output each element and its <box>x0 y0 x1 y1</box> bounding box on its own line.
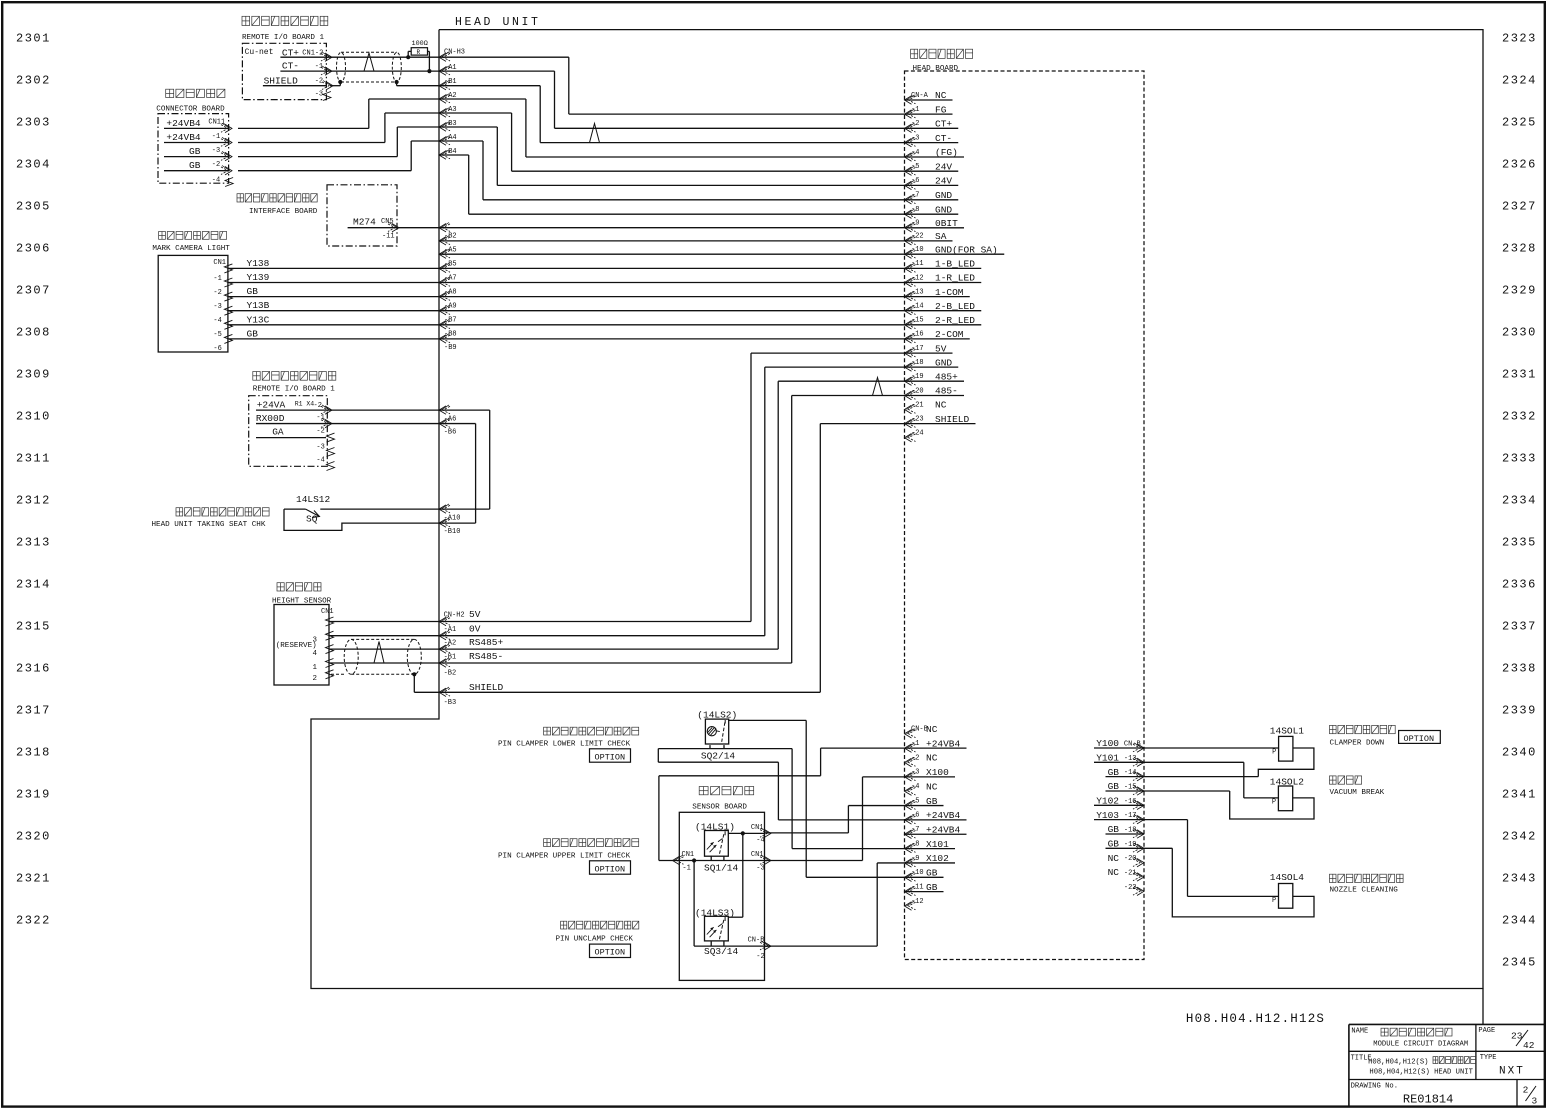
interface board box <box>327 185 397 246</box>
svg-text:MODULE CIRCUIT DIAGRAM: MODULE CIRCUIT DIAGRAM <box>1373 1041 1468 1049</box>
svg-text:-3: -3 <box>213 303 221 311</box>
svg-text:-22: -22 <box>911 233 924 241</box>
svg-text:-11: -11 <box>911 260 924 268</box>
svg-text:1: 1 <box>313 664 318 672</box>
14LS3 bottom terminal wires <box>710 941 712 946</box>
shielded twisted pair symbol (Cu-net CT pair) <box>337 52 346 82</box>
svg-text:2302: 2302 <box>16 74 51 88</box>
svg-text:2318: 2318 <box>16 746 51 760</box>
svg-text:-7: -7 <box>911 192 919 200</box>
remote I/O board 1 box <box>242 43 326 99</box>
svg-text:+24VB4: +24VB4 <box>166 132 201 143</box>
connector CN-B pin -11 GB <box>905 886 916 895</box>
vacuum break labels <box>1330 776 1362 784</box>
height sensor pin 1 <box>326 659 334 668</box>
SHIELD wire to CN-H2-B3 <box>413 674 415 692</box>
svg-text:2316: 2316 <box>16 662 51 676</box>
svg-text:2336: 2336 <box>1502 578 1537 592</box>
connector CN-B pin -17 Y103 (right edge) <box>1133 814 1144 823</box>
svg-text:-4: -4 <box>911 783 919 791</box>
svg-text:-5: -5 <box>911 797 919 805</box>
shielded twisted pair symbol RS485 pair <box>344 639 358 674</box>
svg-text:2305: 2305 <box>16 200 51 214</box>
wire X102 CN-B-9 to sensor board CN-B-2 <box>877 862 904 864</box>
svg-text:NC: NC <box>926 781 938 792</box>
OPTION box (unclamp) <box>590 944 631 957</box>
OPTION box (clamper down) <box>1399 731 1441 744</box>
twist symbol CT pair <box>364 53 374 71</box>
svg-text:+24VB4: +24VB4 <box>166 118 201 129</box>
svg-text:NC: NC <box>1108 867 1120 878</box>
head unit right edge extension to title block <box>1482 989 1484 1025</box>
wire shield right drain to -B1 pin <box>395 80 399 84</box>
svg-text:-2: -2 <box>212 161 220 169</box>
connector CN-B pin -22 (right edge) <box>1133 886 1144 895</box>
wire GB to CN-H3-B3 <box>238 156 397 158</box>
wire +24VB4 CN-B-6 from 14LS2 common <box>778 819 904 821</box>
svg-text:-8: -8 <box>911 840 919 848</box>
svg-text:PIN CLAMPER UPPER LIMIT CHECK: PIN CLAMPER UPPER LIMIT CHECK <box>498 853 631 861</box>
head unit taking seat chk labels <box>176 508 269 516</box>
svg-text:HEAD UNIT: HEAD UNIT <box>455 16 541 29</box>
svg-text:-1: -1 <box>911 106 919 114</box>
wire +24VB4#2 to CN-H3-A3 <box>238 142 385 144</box>
svg-text:NC: NC <box>935 400 947 411</box>
wire 14SOL2 return to GB-15 <box>1230 791 1314 819</box>
svg-text:-2: -2 <box>213 289 221 297</box>
svg-text:-24: -24 <box>911 430 924 438</box>
svg-text:2325: 2325 <box>1502 116 1537 130</box>
wire CT- to head unit edge <box>326 70 439 72</box>
svg-text:GA: GA <box>272 426 284 437</box>
svg-text:2340: 2340 <box>1502 746 1537 760</box>
limit switch 14LS1 body <box>705 831 729 857</box>
svg-text:2327: 2327 <box>1502 200 1537 214</box>
svg-text:2330: 2330 <box>1502 326 1537 340</box>
connector CN-B pin -20 NC (right edge) <box>1133 857 1144 866</box>
svg-text:2321: 2321 <box>16 872 51 886</box>
connector CN-A pin -17 5V <box>905 348 916 357</box>
svg-text:2337: 2337 <box>1502 620 1537 634</box>
svg-text:3: 3 <box>1532 1096 1538 1107</box>
svg-text:-21: -21 <box>1124 869 1137 877</box>
svg-text:Y13B: Y13B <box>247 300 270 311</box>
svg-text:-14: -14 <box>1124 769 1137 777</box>
svg-text:2303: 2303 <box>16 116 51 130</box>
svg-text:CONNECTOR BOARD: CONNECTOR BOARD <box>156 106 225 114</box>
resistor left lead to CT+ junction <box>407 51 409 57</box>
connector board title <box>166 89 225 97</box>
svg-text:-20: -20 <box>1124 855 1137 863</box>
svg-text:CN1-2: CN1-2 <box>302 50 323 58</box>
svg-text:-5: -5 <box>213 331 221 339</box>
svg-text:-4: -4 <box>213 317 221 325</box>
solenoid 14SOL1 <box>1279 736 1293 761</box>
svg-text:CN5: CN5 <box>381 218 394 226</box>
svg-text:-16: -16 <box>1124 798 1137 806</box>
connector CN-B pin -3 X100 <box>905 772 916 781</box>
svg-text:-9: -9 <box>911 855 919 863</box>
svg-text:-1: -1 <box>315 63 323 71</box>
svg-text:RS485-: RS485- <box>469 651 503 662</box>
remote I/O board 1 title (second) <box>253 372 336 381</box>
svg-text:OPTION: OPTION <box>1404 734 1435 744</box>
svg-text:RX00D: RX00D <box>256 413 285 424</box>
connector CN-A pin -6 24V <box>905 180 916 189</box>
svg-text:100Ω: 100Ω <box>412 40 428 48</box>
svg-text:-2: -2 <box>911 754 919 762</box>
svg-text:-12: -12 <box>911 274 924 282</box>
svg-text:-22: -22 <box>1124 884 1137 892</box>
svg-text:-19: -19 <box>1124 841 1137 849</box>
svg-text:-B2: -B2 <box>444 670 457 678</box>
svg-text:2339: 2339 <box>1502 704 1537 718</box>
svg-text:2334: 2334 <box>1502 494 1537 508</box>
sensor board box <box>679 812 764 980</box>
right margin row numbers 2323-2345 <box>1502 32 1537 970</box>
svg-text:HEAD BOARD: HEAD BOARD <box>913 65 959 73</box>
svg-text:PIN CLAMPER LOWER LIMIT CHECK: PIN CLAMPER LOWER LIMIT CHECK <box>498 741 631 749</box>
connector CN-A pin -16 2-COM <box>905 334 916 343</box>
solenoid 14SOL4 <box>1279 884 1293 909</box>
svg-text:2324: 2324 <box>1502 74 1537 88</box>
svg-text:2331: 2331 <box>1502 368 1537 382</box>
svg-text:-21: -21 <box>911 401 924 409</box>
svg-text:P: P <box>1272 799 1276 807</box>
loop wire RX00D to -B10 (14LS12) <box>439 423 476 425</box>
connector CN-A pin -18 GND <box>905 362 916 371</box>
svg-text:2323: 2323 <box>1502 32 1537 46</box>
svg-text:14SOL1: 14SOL1 <box>1270 726 1305 737</box>
svg-text:-10: -10 <box>911 246 924 254</box>
svg-text:2338: 2338 <box>1502 662 1537 676</box>
svg-text:CN1: CN1 <box>321 608 334 616</box>
resistor right lead to CT- junction <box>428 50 430 52</box>
svg-text:-14: -14 <box>911 303 924 311</box>
connector CN-A pin -14 2-B_LED <box>905 306 916 315</box>
svg-text:-3: -3 <box>316 443 324 451</box>
wire 14SOL4 return to GB-19 <box>1172 848 1314 917</box>
connector CN-A pin CN-A NC <box>905 95 916 104</box>
svg-text:SHIELD: SHIELD <box>469 682 504 693</box>
wire SA to CN-A-22 <box>439 240 905 242</box>
svg-text:-1: -1 <box>213 275 221 283</box>
wire GB CN-B-10 from 14LS2 top <box>806 876 904 878</box>
svg-text:OPTION: OPTION <box>595 948 626 958</box>
connector CN-A pin -22 SA <box>905 236 916 245</box>
wire +24VB4 CN-B-1 to sensor board CN1-1 <box>821 747 905 749</box>
svg-text:R1 X4: R1 X4 <box>295 401 315 408</box>
svg-text:-2: -2 <box>911 120 919 128</box>
connector CN-B pin -4 NC <box>905 786 916 795</box>
connector CN-B pin -12 <box>905 901 916 910</box>
svg-text:REMOTE I/O BOARD 1: REMOTE I/O BOARD 1 <box>253 386 335 394</box>
wire Y103 to 14SOL4 <box>1144 819 1188 821</box>
svg-text:H08,H04,H12(S) HEAD UNIT: H08,H04,H12(S) HEAD UNIT <box>1369 1069 1473 1077</box>
svg-text:-17: -17 <box>1124 812 1137 820</box>
connector CN-B pin -5 GB <box>905 800 916 809</box>
svg-text:14SOL4: 14SOL4 <box>1270 872 1305 883</box>
svg-text:P: P <box>1272 897 1276 905</box>
connector CN-A pin -13 1-COM <box>905 291 916 300</box>
svg-text:2342: 2342 <box>1502 830 1537 844</box>
svg-text:2301: 2301 <box>16 32 51 46</box>
svg-text:-2: -2 <box>756 953 764 961</box>
connector CN-A pin -5 24V <box>905 166 916 175</box>
connector CN-A pin -24 <box>905 433 916 442</box>
connector CN-A pin -11 1-B_LED <box>905 263 916 272</box>
title block table <box>1349 1023 1545 1025</box>
height sensor box <box>274 605 329 686</box>
connector CN-B pin -7 +24VB4 <box>905 829 916 838</box>
svg-text:2341: 2341 <box>1502 788 1537 802</box>
limit switch 14LS3 body <box>705 916 729 941</box>
svg-text:-13: -13 <box>1124 755 1137 763</box>
mark camera light title <box>159 232 227 240</box>
svg-text:2320: 2320 <box>16 830 51 844</box>
wire GND(FOR SA) to CN-A-10 <box>439 253 905 255</box>
svg-text:R: R <box>417 49 421 56</box>
svg-text:-19: -19 <box>911 373 924 381</box>
svg-text:2335: 2335 <box>1502 536 1537 550</box>
svg-text:CLAMPER DOWN: CLAMPER DOWN <box>1330 740 1385 748</box>
wire X101 CN-B-8 from 14LS2 contact <box>792 848 904 850</box>
svg-text:3: 3 <box>313 637 318 645</box>
svg-text:4: 4 <box>313 650 318 658</box>
wire RS485+ up to CN-A-19 <box>777 381 779 649</box>
mark camera pin -2 signal Y139 <box>224 278 232 287</box>
wire X100 CN-B-3 to sensor board CN1-3 <box>863 776 905 778</box>
svg-text:-7: -7 <box>911 826 919 834</box>
svg-text:-2: -2 <box>315 78 323 86</box>
svg-text:SQ3/14: SQ3/14 <box>704 946 739 957</box>
svg-text:14LS12: 14LS12 <box>296 494 331 505</box>
connector CN-B pin -10 GB <box>905 872 916 881</box>
svg-text:-13: -13 <box>911 288 924 296</box>
twist symbol 485 pair at head board <box>873 378 883 396</box>
svg-text:GB: GB <box>189 160 201 171</box>
svg-text:RE01814: RE01814 <box>1403 1093 1453 1107</box>
limit switch 14LS2 body <box>705 719 728 744</box>
svg-text:GB: GB <box>247 328 259 339</box>
pin clamper upper limit check labels <box>544 839 639 847</box>
mark camera pin -1 signal Y138 <box>224 264 232 273</box>
svg-text:NC: NC <box>926 753 938 764</box>
svg-text:NOZZLE CLEANING: NOZZLE CLEANING <box>1330 887 1399 895</box>
wire GB CN-B-5 to sensor board CN1-4 <box>848 805 904 807</box>
svg-text:2329: 2329 <box>1502 284 1537 298</box>
wire +24VB4#1 to CN-H3-A2 <box>238 127 369 129</box>
svg-text:SQ2/14: SQ2/14 <box>701 751 736 762</box>
svg-text:2328: 2328 <box>1502 242 1537 256</box>
svg-text:Cu-net: Cu-net <box>245 48 274 57</box>
svg-text:SHIELD: SHIELD <box>264 76 299 87</box>
14LS12 lower contact wire <box>284 509 439 530</box>
svg-text:CN-H3: CN-H3 <box>444 49 465 57</box>
svg-text:-B10: -B10 <box>444 528 461 536</box>
svg-text:2306: 2306 <box>16 242 51 256</box>
mark camera pin -3 signal GB <box>224 292 232 301</box>
wire M274 CN5-11 to CN-A-9 0BIT <box>348 227 905 229</box>
wire SHIELD up to CN-A-23 <box>819 424 821 693</box>
wire SHIELD to left shield drain with junction <box>330 85 340 87</box>
svg-text:-16: -16 <box>911 331 924 339</box>
svg-text:-2: -2 <box>316 428 324 436</box>
svg-text:-6: -6 <box>911 812 919 820</box>
wire RS485- up to CN-A-20 <box>791 396 793 664</box>
svg-text:2345: 2345 <box>1502 956 1537 970</box>
height sensor title <box>277 583 321 591</box>
connector CN-B pin -13 Y101 (right edge) <box>1133 757 1144 766</box>
mark camera pin -4 signal Y13B <box>224 306 232 315</box>
svg-text:-9: -9 <box>911 220 919 228</box>
svg-text:-11: -11 <box>911 883 924 891</box>
svg-text:2344: 2344 <box>1502 914 1537 928</box>
connector CN-A pin -3 CT- <box>905 137 916 146</box>
remote I/O board 2 box <box>249 396 328 467</box>
limit switch 14LS12 SQ <box>284 508 306 510</box>
mark camera pin -6 signal GB <box>224 334 232 343</box>
connector CN-B pin -6 +24VB4 <box>905 815 916 824</box>
svg-text:2332: 2332 <box>1502 410 1537 424</box>
connector CN-A pin -2 CT+ <box>905 123 916 132</box>
svg-text:2315: 2315 <box>16 620 51 634</box>
svg-text:-10: -10 <box>911 869 924 877</box>
wire Y101 to 14SOL2 <box>1144 761 1244 763</box>
svg-text:VACUUM BREAK: VACUUM BREAK <box>1330 789 1385 797</box>
svg-text:-8: -8 <box>911 206 919 214</box>
svg-text:5V: 5V <box>469 609 481 620</box>
connector board box <box>158 114 229 184</box>
14LS1 top wire with junction to 14LS3 <box>728 832 764 834</box>
connector CN-B pin -15 GB (right edge) <box>1133 786 1144 795</box>
connector CN-A pin -21 NC <box>905 404 916 413</box>
svg-text:CN-H2: CN-H2 <box>444 612 465 620</box>
connector CN-B pin CN-B Y100 (right edge) <box>1133 743 1144 752</box>
svg-text:-15: -15 <box>1124 783 1137 791</box>
svg-text:(RESERVE): (RESERVE) <box>276 642 317 650</box>
svg-text:CN1: CN1 <box>213 259 226 267</box>
svg-text:2319: 2319 <box>16 788 51 802</box>
connector CN-A pin -9 0BIT <box>905 223 916 232</box>
twist symbol CT pair inside head unit <box>590 124 600 143</box>
svg-text:-11: -11 <box>382 233 395 241</box>
connector CN-A pin -20 485- <box>905 390 916 399</box>
svg-text:RS485+: RS485+ <box>469 637 504 648</box>
svg-text:-12: -12 <box>911 898 924 906</box>
twist symbol RS485 sensor pair <box>374 642 384 664</box>
svg-text:-18: -18 <box>1124 826 1137 834</box>
svg-text:-6: -6 <box>213 345 221 353</box>
svg-text:GB: GB <box>247 286 259 297</box>
svg-text:2312: 2312 <box>16 494 51 508</box>
svg-text:-4: -4 <box>316 457 324 465</box>
HEAD UNIT boundary box <box>311 30 1483 989</box>
svg-text:2308: 2308 <box>16 326 51 340</box>
svg-text:CN1: CN1 <box>682 851 695 859</box>
connector CN-A pin -23 SHIELD <box>905 418 916 427</box>
mark camera light box <box>158 255 228 352</box>
svg-text:2317: 2317 <box>16 704 51 718</box>
svg-text:DRAWING No.: DRAWING No. <box>1351 1083 1398 1091</box>
svg-text:-2: -2 <box>314 402 322 410</box>
connector CN-A pin -1 FG <box>905 109 916 118</box>
svg-text:2311: 2311 <box>16 452 51 466</box>
connector CN-A pin -12 1-R_LED <box>905 277 916 286</box>
height sensor pin CN1 <box>326 617 334 626</box>
solenoid 14SOL2 <box>1278 786 1292 811</box>
svg-text:2310: 2310 <box>16 410 51 424</box>
connector CN-A pin -19 485+ <box>905 376 916 385</box>
wire 0V up to CN-A-18 <box>764 367 766 636</box>
svg-text:2343: 2343 <box>1502 872 1537 886</box>
svg-text:2309: 2309 <box>16 368 51 382</box>
sensor board title <box>699 787 754 795</box>
svg-text:2307: 2307 <box>16 284 51 298</box>
svg-text:TYPE: TYPE <box>1480 1054 1497 1062</box>
connector CN-A pin -7 GND <box>905 195 916 204</box>
svg-text:2322: 2322 <box>16 914 51 928</box>
svg-text:INTERFACE BOARD: INTERFACE BOARD <box>249 208 318 216</box>
svg-text:H08.H04.H12.H12S: H08.H04.H12.H12S <box>1186 1012 1325 1026</box>
svg-text:-1: -1 <box>682 865 690 873</box>
connector CN-B pin CN-B NC <box>905 729 916 738</box>
connector CN-B pin -9 X102 <box>905 858 916 867</box>
svg-text:-3: -3 <box>911 134 919 142</box>
left margin row numbers 2301-2322 <box>16 32 51 928</box>
svg-text:HEAD UNIT TAKING SEAT CHK: HEAD UNIT TAKING SEAT CHK <box>152 521 266 529</box>
svg-text:-3: -3 <box>911 769 919 777</box>
svg-text:M274: M274 <box>353 217 376 228</box>
interface board title <box>237 194 317 202</box>
svg-text:OPTION: OPTION <box>595 864 626 874</box>
sensor board internal row to 14LS1 with junction <box>679 860 764 862</box>
remote I/O board 1 title (top) <box>242 16 328 25</box>
svg-text:NXT: NXT <box>1499 1066 1525 1078</box>
svg-text:2313: 2313 <box>16 536 51 550</box>
svg-text:-3: -3 <box>756 865 764 873</box>
wire 14SOL1 return to GB-14 <box>1258 748 1314 777</box>
connector CN-A pin -4 (FG) <box>905 152 916 161</box>
connector CN-B pin -8 X101 <box>905 843 916 852</box>
wire 5V up to CN-A-17 <box>750 353 752 621</box>
svg-text:-1: -1 <box>316 414 324 422</box>
svg-text:NAME: NAME <box>1351 1028 1368 1036</box>
svg-text:OPTION: OPTION <box>595 752 626 762</box>
height sensor pin 3 <box>326 631 334 640</box>
svg-text:+24VA: +24VA <box>257 400 286 411</box>
connector CN-A pin -15 2-R_LED <box>905 320 916 329</box>
svg-text:42: 42 <box>1523 1040 1535 1051</box>
svg-text:2: 2 <box>313 675 318 683</box>
connector CN-B pin -21 NC (right edge) <box>1133 872 1144 881</box>
svg-text:-17: -17 <box>911 345 924 353</box>
svg-text:-4: -4 <box>756 837 764 845</box>
svg-text:H08,H04,H12(S): H08,H04,H12(S) <box>1368 1059 1428 1067</box>
height sensor wires to CN-H2 <box>329 621 751 623</box>
svg-text:P: P <box>1272 749 1276 757</box>
svg-text:REMOTE I/O BOARD 1: REMOTE I/O BOARD 1 <box>242 34 324 42</box>
svg-text:CT-: CT- <box>282 61 299 72</box>
clamper down labels <box>1330 725 1396 733</box>
svg-text:-1: -1 <box>212 133 220 141</box>
svg-text:MARK CAMERA LIGHT: MARK CAMERA LIGHT <box>152 245 230 253</box>
svg-text:-15: -15 <box>911 317 924 325</box>
svg-text:-4: -4 <box>911 149 919 157</box>
14LS2 bottom terminal wires <box>709 745 711 749</box>
svg-text:NC: NC <box>926 724 938 735</box>
svg-text:-1: -1 <box>911 740 919 748</box>
